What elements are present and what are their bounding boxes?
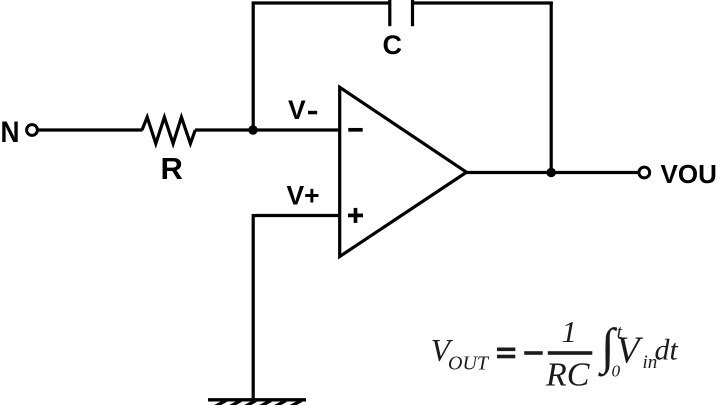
wire input from terminal to resistor xyxy=(39,128,143,131)
capacitor C left plate xyxy=(388,0,391,26)
svg-text:V: V xyxy=(288,95,306,125)
formula fraction bar xyxy=(548,351,593,355)
wire feedback top right from capacitor xyxy=(413,1,553,4)
svg-text:OUT: OUT xyxy=(448,353,490,375)
formula equals sign xyxy=(497,348,515,352)
svg-text:RC: RC xyxy=(545,357,590,394)
wire resistor to op-amp inverting input xyxy=(195,128,340,131)
wire feedback vertical right down to output xyxy=(550,2,553,173)
ground symbol xyxy=(208,400,306,405)
op-amp U1 xyxy=(340,87,467,256)
wire feedback vertical left xyxy=(252,3,255,130)
node junction dot at output xyxy=(547,168,556,177)
wire feedback top left to capacitor xyxy=(252,1,390,4)
wire non-inverting input horizontal xyxy=(253,214,339,217)
svg-text:V+: V+ xyxy=(287,181,320,211)
op-amp inverting pin minus sign xyxy=(348,128,362,132)
node junction dot at inverting input xyxy=(248,125,257,134)
wire non-inverting input vertical to ground xyxy=(252,214,255,400)
resistor R xyxy=(142,117,195,143)
svg-text:V: V xyxy=(616,330,643,372)
svg-text:N: N xyxy=(1,116,20,149)
svg-text:R: R xyxy=(161,151,183,186)
input terminal circle VIN xyxy=(27,125,38,136)
svg-text:C: C xyxy=(383,30,403,60)
svg-text:dt: dt xyxy=(655,334,679,367)
svg-text:1: 1 xyxy=(561,314,577,349)
op-amp non-inverting pin plus sign xyxy=(348,208,363,223)
formula minus sign xyxy=(524,351,543,355)
svg-text:VOU: VOU xyxy=(661,159,717,189)
capacitor C right plate xyxy=(411,0,414,26)
wire op-amp output to terminal xyxy=(466,171,638,174)
output terminal circle VOUT xyxy=(639,167,650,178)
